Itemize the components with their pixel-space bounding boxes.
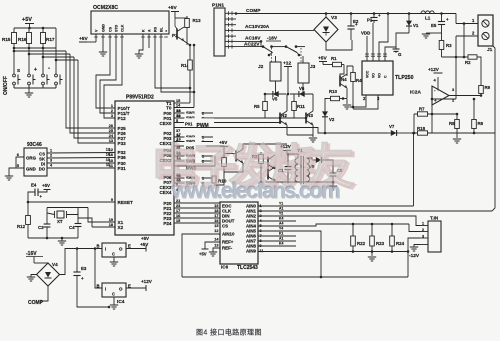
switch SW2 contact a (174, 136, 213, 138)
pin 4 (T.IN) (420, 244, 428, 246)
switch link dashed (J3) (300, 48, 302, 63)
wire TLP250 C pin (385, 47, 396, 61)
svg-text:V4: V4 (52, 262, 58, 267)
svg-text:A1: A1 (279, 237, 283, 241)
svg-text:1: 1 (50, 149, 52, 153)
svg-text:P36: P36 (118, 155, 127, 160)
svg-text:R1: R1 (331, 56, 337, 61)
wire buttons bottom rail (14, 87, 56, 89)
wire TLP pin3 (353, 95, 378, 109)
wire ORG/GND to ground (16, 157, 24, 168)
wire +12V to Y1 primary (287, 154, 298, 158)
svg-text:+5V: +5V (318, 56, 327, 62)
svg-text:TLP250: TLP250 (395, 75, 414, 81)
svg-text:V2: V2 (329, 117, 335, 122)
svg-text:BL: BL (160, 26, 164, 32)
watermark glyphs (151, 140, 356, 195)
wire P21-CLK (174, 207, 220, 209)
svg-text:1: 1 (111, 104, 113, 108)
wire riser AIN0 to V7 row (413, 133, 415, 206)
svg-text:R23: R23 (376, 241, 385, 246)
svg-text:R22: R22 (357, 241, 366, 246)
svg-text:www.elecfans.com: www.elecfans.com (171, 179, 340, 204)
svg-text:J2: J2 (258, 64, 264, 70)
svg-text:-: - (48, 66, 50, 72)
wire IC2A output (449, 95, 481, 97)
ground (crystal) (61, 238, 63, 241)
wire AIN5 row down to return loop (258, 231, 321, 277)
svg-text:13: 13 (177, 109, 181, 113)
power -12V (T.IN) (414, 245, 420, 248)
svg-text:R8: R8 (449, 121, 455, 126)
watermark url text (170, 178, 340, 204)
svg-text:R7: R7 (419, 107, 425, 112)
svg-text:11: 11 (260, 249, 264, 253)
node PWM / wire P01 row to N2 base (174, 122, 280, 124)
wire R18 to op-amp minus (431, 132, 432, 134)
wire V2 bottom to PWM line (324, 120, 326, 133)
wire LCD A pin down (148, 34, 150, 48)
ground (V4) (31, 275, 37, 278)
wire rail top of R15-R17 (14, 27, 56, 29)
svg-text:93C46: 93C46 (27, 142, 42, 148)
transistor N5 (267, 157, 269, 168)
svg-text:3: 3 (111, 114, 113, 118)
wire secondary bottom rail (265, 181, 333, 183)
svg-text:CS: CS (109, 26, 113, 32)
svg-text:R15: R15 (2, 37, 11, 42)
svg-text:+5V: +5V (199, 252, 207, 257)
svg-text:OCM2X8C: OCM2X8C (93, 5, 118, 11)
resistor R20 (base) (223, 152, 225, 172)
svg-text:L1: L1 (425, 16, 431, 21)
svg-text:V1: V1 (413, 23, 419, 28)
wire LCD STD to MCU P11/T (100, 34, 116, 113)
wire divider rail to T.IN2 (409, 224, 420, 232)
wire R13 to T net (186, 30, 188, 45)
ground (IC4) (113, 297, 115, 305)
svg-text:+12V: +12V (141, 279, 153, 284)
svg-text:R12: R12 (17, 224, 26, 229)
svg-text:+5V: +5V (140, 242, 149, 247)
switch SW3 contact b (174, 160, 213, 162)
ground (IC3) (113, 257, 115, 262)
switch SW4 contact a (174, 177, 213, 179)
svg-text:+5V: +5V (168, 5, 177, 11)
svg-text:AIN10: AIN10 (222, 232, 235, 237)
wire riser AIN1 right edge (492, 46, 495, 211)
switch contact K1 (262, 45, 265, 48)
wire +5V split (174, 15, 176, 18)
wire P23-DOUT (174, 217, 220, 219)
wire AIN6 row (258, 235, 296, 237)
wire V4 out rail (60, 249, 103, 275)
svg-text:C3: C3 (38, 225, 44, 230)
wire N2 collector (286, 94, 288, 111)
svg-text:PWM: PWM (197, 123, 209, 129)
wire key bus to MCU P26 (70, 54, 115, 133)
wire COMP rail (236, 13, 456, 15)
svg-text:XT: XT (57, 219, 63, 224)
wire N5/N6 to rail (260, 166, 262, 182)
wire key bus to MCU P27 (74, 57, 115, 138)
wire N3 collector (312, 94, 314, 111)
ground (LCD) (99, 51, 107, 53)
svg-text:V3: V3 (331, 15, 337, 21)
wire T0 vertical (193, 45, 195, 108)
svg-text:P12: P12 (118, 116, 127, 121)
wire driver emitters (274, 167, 276, 169)
svg-text:+: + (34, 67, 37, 73)
svg-text:K1: K1 (279, 232, 283, 236)
svg-text:+12V: +12V (428, 67, 440, 72)
wire AC22V row (236, 46, 263, 48)
wire X1 to crystal (88, 208, 115, 223)
wire R1 to N4 base (340, 65, 344, 77)
svg-text:2: 2 (202, 111, 204, 115)
svg-text:P89V51RD2: P89V51RD2 (126, 95, 154, 101)
svg-text:T0: T0 (166, 105, 172, 110)
transistor P3 (235, 151, 237, 162)
wire V8 to C5 (326, 160, 333, 167)
wire DO to MCU P31 (47, 167, 115, 169)
switch contact K2 (285, 45, 288, 48)
power +5V (REF+) (205, 242, 220, 249)
svg-text:ORG: ORG (26, 156, 37, 161)
wire R4 bottom to TLP pin2 node (350, 88, 353, 107)
switch link dashed (J2) (271, 48, 273, 62)
wire button2 to row (29, 48, 70, 54)
svg-text:图4 接口电路原理图: 图4 接口电路原理图 (196, 328, 262, 337)
switch SW2 contact b (174, 141, 213, 143)
wire LCD BL pin to T0 net (161, 34, 194, 92)
svg-text:O: O (119, 247, 123, 252)
svg-text:15: 15 (214, 224, 218, 228)
svg-text:+: + (446, 17, 449, 22)
svg-text:REF-: REF- (222, 246, 233, 251)
capacitor C (snubber to gnd) (395, 47, 397, 49)
svg-text:A4: A4 (279, 222, 283, 226)
wire contact K2 out (296, 46, 305, 48)
switch SW3 contact a (174, 155, 213, 157)
wire E3 to gnd rail (77, 285, 109, 307)
ground (LCD backlight) (135, 53, 143, 55)
svg-text:VDD: VDD (361, 31, 370, 36)
wire bridge top to COMP rail (325, 14, 327, 18)
wire R2 to R9 (479, 57, 481, 84)
svg-text:STD: STD (115, 24, 119, 32)
wire T1 vertical (189, 45, 191, 103)
wire R20 bottom (214, 172, 224, 185)
svg-text:E4: E4 (31, 183, 37, 188)
svg-text:T.IN: T.IN (430, 216, 439, 221)
svg-text:+: + (355, 22, 358, 27)
svg-text:J3: J3 (310, 64, 316, 70)
svg-text:DO: DO (39, 167, 46, 172)
svg-text:+12: +12 (283, 61, 291, 67)
wire +5V to P3 (223, 147, 225, 153)
svg-text:E5: E5 (431, 23, 437, 28)
wire PWM row to V2 (174, 128, 325, 134)
wire N4 collector to R4 top (347, 66, 353, 76)
svg-text:R11: R11 (297, 104, 305, 109)
wire X2 to crystal (92, 226, 115, 228)
svg-text:R2: R2 (465, 60, 471, 65)
wire SK to MCU P36 (47, 157, 115, 160)
ADC IC6 TLC2543 (220, 202, 258, 264)
svg-text:R3: R3 (446, 43, 452, 48)
wire DI to MCU P30 (47, 162, 115, 164)
wire emitter to gnd (346, 99, 348, 105)
svg-text:CS: CS (222, 224, 228, 229)
wire V4 bottom to COMP (41, 286, 48, 301)
wire LCD RS pin down (155, 34, 190, 88)
node R10 label (212, 176, 216, 183)
node P05 / wire CEX1 row to driver (174, 146, 224, 150)
svg-text:3: 3 (50, 159, 52, 163)
wire button1 to row (14, 48, 66, 51)
ground (E5) (426, 32, 442, 34)
svg-text:12: 12 (177, 114, 181, 118)
svg-text:REF+: REF+ (222, 240, 234, 245)
svg-text:+: + (378, 13, 381, 18)
wire between contacts (272, 46, 287, 48)
svg-text:R9: R9 (485, 85, 491, 90)
svg-text:P01: P01 (185, 122, 193, 127)
svg-text:10: 10 (106, 158, 110, 162)
svg-text:CLK: CLK (121, 24, 125, 32)
wire key bus to MCU P33 (78, 60, 115, 143)
wire AIN3 row (258, 220, 296, 222)
wire up to T.IN pin3 (408, 238, 420, 277)
svg-text:2: 2 (111, 109, 113, 113)
wire rail below resistors (14, 47, 56, 49)
svg-text:V6: V6 (299, 86, 305, 91)
svg-text:GND: GND (102, 24, 106, 32)
wire J1 pin2 branch down (455, 36, 457, 99)
wire P22-DIN (174, 212, 220, 214)
wire AIN10 loop (182, 234, 220, 277)
svg-text:AC16V: AC16V (245, 36, 261, 42)
ground (drivers) (312, 135, 314, 137)
ground (keys) (28, 88, 30, 93)
wire crystal rail (47, 213, 55, 215)
wire R12 to crystal gnd rail (28, 237, 47, 239)
svg-text:X2: X2 (118, 225, 124, 230)
wire VDD to TLP250 VCC (366, 36, 368, 61)
svg-text:E: E (128, 244, 131, 249)
svg-text:C: C (112, 292, 115, 297)
svg-text:A1: A1 (279, 207, 283, 211)
wire P1 to TLP250 VO (372, 23, 374, 61)
wire button3 to row (43, 48, 74, 57)
wire IC2A inverting node (432, 98, 456, 100)
svg-text:19: 19 (214, 204, 218, 208)
wire LCD K pin to ground (139, 34, 143, 54)
svg-text:K4: K4 (279, 242, 283, 246)
wire V1 to gnd node (396, 33, 409, 47)
wire CEX2 row (174, 156, 215, 166)
wire P20-EOC (174, 202, 220, 204)
wire emitter rail (287, 134, 313, 136)
svg-text:V7: V7 (389, 124, 395, 129)
wire N2 emitter to gnd rail (286, 125, 288, 135)
svg-text:E3: E3 (81, 266, 87, 271)
svg-text:COMP: COMP (28, 300, 44, 306)
svg-text:-12V: -12V (409, 253, 420, 259)
wire key bus to MCU P25 (66, 51, 115, 128)
wire AC16V row (236, 40, 261, 42)
svg-text:A: A (148, 29, 152, 32)
regulator IC4 (+12V) (102, 283, 126, 297)
wire to IC4 input (95, 249, 102, 289)
svg-text:13: 13 (214, 244, 218, 248)
svg-text:+5V: +5V (79, 36, 88, 42)
wire to R2 node (442, 56, 467, 58)
svg-text:VCC: VCC (365, 70, 369, 78)
svg-text:GND: GND (26, 167, 36, 172)
wire N3 emitter (312, 125, 314, 135)
wire P24-CS (174, 222, 220, 224)
svg-text:18: 18 (214, 209, 218, 213)
wire V4 top (34, 262, 48, 264)
svg-text:R24: R24 (396, 241, 405, 246)
svg-text:ON/OFF: ON/OFF (3, 76, 9, 95)
switch contact K1 throw (268, 54, 271, 57)
wire bottom return loop (182, 276, 408, 278)
svg-text:Y2: Y2 (279, 212, 283, 216)
svg-text:15: 15 (176, 99, 180, 103)
wire button stems (13, 51, 15, 71)
svg-text:I: I (105, 247, 106, 252)
svg-text:+5V: +5V (42, 183, 50, 188)
svg-text:17: 17 (214, 214, 218, 218)
svg-text:RS: RS (154, 26, 158, 32)
wire LCD GND pin (102, 34, 104, 52)
svg-text:IC2A: IC2A (410, 90, 421, 96)
ground (Y1 secondary) (332, 182, 334, 185)
svg-text:P33: P33 (118, 141, 127, 146)
wire PWM line to V7/R18 (325, 132, 388, 134)
wire button4 to row (56, 48, 78, 60)
svg-text:C: C (112, 252, 115, 257)
wire AIN2 row to T.IN pin1 (258, 216, 420, 226)
wire LCD CS to MCU P10/T (96, 34, 115, 108)
svg-text:R18: R18 (417, 126, 426, 131)
wire P2 emitter to T1 net (184, 41, 190, 45)
wire IC4 output +12V (126, 287, 146, 289)
svg-text:+: + (81, 276, 84, 281)
svg-text:12: 12 (214, 229, 218, 233)
svg-text:R16: R16 (18, 37, 27, 42)
wire P3 collector to +12 rail (243, 144, 287, 149)
wire N4 emitter (346, 88, 348, 98)
wire AIN4 row to divider rail (258, 224, 409, 226)
svg-text:B: B (97, 244, 100, 249)
wire R7 right (431, 113, 457, 115)
wire TLP pin2 (350, 95, 366, 107)
wire AIN9 row to divider bottom rail (258, 251, 408, 253)
svg-text:25: 25 (109, 129, 113, 133)
svg-text:11: 11 (106, 163, 110, 167)
wire R6 bottom to feedback row (473, 131, 475, 133)
wire AC10V20A to bridge V3 (236, 29, 314, 31)
svg-text:VO: VO (377, 73, 381, 78)
svg-text:+: + (165, 30, 169, 32)
svg-text:VO: VO (371, 73, 375, 78)
ground (93C46) (5, 175, 13, 177)
svg-text:2: 2 (50, 154, 52, 158)
switch contact K2 throw (298, 54, 301, 57)
svg-text:O: O (119, 287, 123, 292)
svg-text:AIN9: AIN9 (246, 249, 257, 254)
wire IC3 output +5V (126, 248, 146, 250)
svg-text:R6: R6 (478, 121, 484, 126)
svg-text:12: 12 (106, 148, 110, 152)
svg-text:K: K (142, 29, 146, 32)
transistor N6 (267, 169, 269, 180)
wire T1 to MCU (174, 102, 190, 104)
wire T0 to MCU (174, 107, 194, 109)
ground (divider bottom) (371, 252, 373, 257)
switch SW4 contact b (174, 182, 204, 184)
svg-text:R4: R4 (356, 78, 362, 83)
svg-text:+5V: +5V (141, 236, 149, 241)
svg-text:R5: R5 (254, 104, 260, 109)
svg-text:C4: C4 (69, 225, 75, 230)
switch SW1 contact b / wire to N3 base (174, 117, 306, 119)
svg-text:1: 1 (202, 135, 204, 139)
svg-text:16: 16 (214, 219, 218, 223)
svg-text:+5V: +5V (22, 17, 32, 23)
svg-text:J1: J1 (487, 47, 493, 53)
wire P3 emitter down (224, 163, 243, 172)
svg-text:17: 17 (177, 133, 181, 137)
switch SW1 contact a (174, 112, 213, 114)
svg-text:1: 1 (422, 222, 424, 226)
ground (divider) (456, 134, 458, 138)
wire rail to J1 pin1 (455, 14, 457, 24)
wire Y1 secondary top (307, 158, 313, 160)
wire LCD CLK to MCU P12 (104, 34, 122, 118)
svg-text:P24: P24 (163, 221, 172, 226)
svg-text:R17: R17 (46, 37, 55, 42)
wire bridge bottom (326, 40, 352, 50)
wire R18 row extension to right edge (431, 132, 495, 134)
ground (REF-) (213, 248, 220, 252)
svg-text:B: B (97, 284, 100, 289)
svg-text:I: I (105, 287, 106, 292)
wire AIN7 row (258, 240, 296, 242)
svg-text:13: 13 (109, 139, 113, 143)
svg-text:IC6: IC6 (221, 265, 229, 270)
svg-text:RESET: RESET (118, 200, 134, 205)
wire CS to MCU P32 (47, 152, 115, 155)
svg-text:P31: P31 (118, 166, 127, 171)
wire TLP250 VO2 up (379, 14, 388, 62)
svg-text:G: G (398, 52, 402, 57)
svg-text:S: S (17, 68, 20, 73)
svg-text:16: 16 (106, 153, 110, 157)
svg-text:R13: R13 (193, 18, 202, 23)
wire R7 left to R18 node (413, 114, 415, 133)
wire AIN0 sense row to R18 node (258, 205, 414, 207)
svg-text:AC10V20A: AC10V20A (245, 24, 270, 30)
wire AIN8 row (258, 245, 296, 247)
ground (N4) (343, 104, 351, 106)
svg-text:V5: V5 (272, 97, 278, 102)
wire AIN1 sense row to J1 return (258, 210, 492, 212)
